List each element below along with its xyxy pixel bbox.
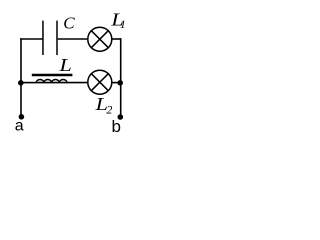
svg-text:2: 2: [106, 102, 112, 116]
wire: left vertical: [20, 38, 22, 117]
lamp L1: [88, 27, 112, 51]
wire: top rail middle segment: [58, 38, 88, 40]
svg-text:L: L: [58, 55, 72, 75]
junction dot right: [117, 80, 123, 86]
wire: top rail right segment: [112, 38, 122, 40]
svg-text:a: a: [15, 117, 24, 134]
wire: middle rail left segment: [21, 82, 36, 84]
wire: top rail left segment: [20, 38, 43, 40]
capacitor C plates: [43, 21, 57, 55]
wire: L2 to right vertical: [112, 82, 121, 84]
svg-text:1: 1: [120, 17, 126, 31]
lamp L2: [88, 70, 112, 94]
svg-text:C: C: [63, 13, 75, 32]
wire: middle rail right segment: [67, 82, 88, 84]
terminal dot b: [118, 114, 124, 120]
inductor L coil baseline: [36, 82, 67, 84]
terminal dot a: [19, 114, 25, 120]
inductor core bar: [32, 74, 73, 77]
inductor L coil arcs: [36, 79, 67, 82]
junction dot left: [18, 80, 24, 86]
svg-text:b: b: [112, 117, 121, 136]
wire: right vertical: [120, 38, 122, 117]
